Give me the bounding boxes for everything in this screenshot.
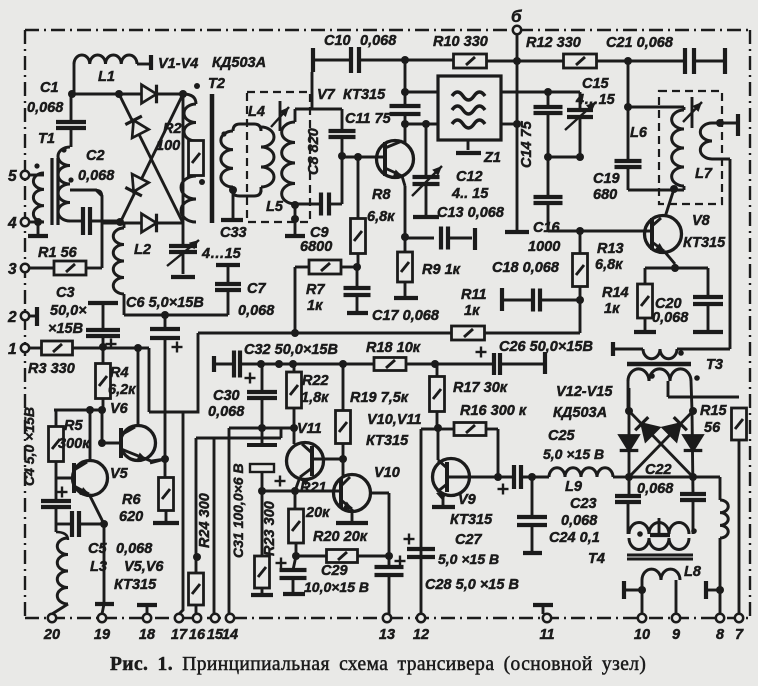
svg-text:L8: L8 (684, 564, 702, 580)
svg-text:0,068: 0,068 (360, 33, 397, 49)
svg-text:R22: R22 (302, 373, 329, 389)
svg-text:R7: R7 (306, 282, 325, 298)
svg-text:КД503А: КД503А (212, 55, 266, 71)
svg-text:C30: C30 (213, 388, 240, 404)
svg-text:C13 0,068: C13 0,068 (437, 205, 505, 221)
svg-text:C27: C27 (455, 532, 483, 548)
svg-text:C18 0,068: C18 0,068 (492, 260, 560, 276)
svg-text:1к: 1к (307, 298, 323, 314)
svg-text:R15: R15 (700, 403, 728, 419)
svg-text:0,068: 0,068 (27, 100, 64, 116)
svg-text:C31 100,0×6 В: C31 100,0×6 В (230, 463, 246, 558)
svg-text:1: 1 (8, 341, 17, 358)
svg-text:V5: V5 (110, 466, 129, 482)
svg-text:3: 3 (8, 261, 17, 278)
svg-text:19: 19 (94, 627, 110, 643)
svg-text:C19: C19 (593, 171, 620, 187)
svg-text:R23 300: R23 300 (262, 501, 278, 556)
svg-text:б: б (511, 7, 522, 26)
svg-text:0,068: 0,068 (652, 310, 689, 326)
svg-text:4…15: 4…15 (201, 246, 242, 262)
svg-text:680: 680 (593, 187, 617, 203)
svg-text:C14 75: C14 75 (519, 120, 535, 168)
svg-text:T4: T4 (588, 551, 605, 567)
svg-text:C21 0,068: C21 0,068 (606, 35, 674, 51)
svg-text:КТ315: КТ315 (343, 87, 386, 103)
svg-text:C23: C23 (570, 496, 597, 512)
svg-text:8: 8 (716, 627, 725, 643)
svg-text:13: 13 (379, 627, 395, 643)
svg-text:C22: C22 (645, 462, 672, 478)
svg-text:L6: L6 (630, 125, 648, 141)
svg-text:C26 50,0×15В: C26 50,0×15В (499, 339, 593, 355)
svg-text:R24 300: R24 300 (197, 493, 213, 548)
svg-text:V10,V11: V10,V11 (367, 412, 422, 428)
svg-text:R11: R11 (461, 287, 487, 303)
svg-text:T1: T1 (38, 131, 55, 147)
svg-text:V9: V9 (458, 492, 476, 508)
svg-text:14: 14 (222, 627, 238, 643)
svg-text:6,2к: 6,2к (108, 382, 136, 398)
svg-text:КТ315: КТ315 (114, 577, 157, 593)
svg-text:C28 5,0 ×15 В: C28 5,0 ×15 В (425, 577, 519, 593)
svg-text:C10: C10 (324, 33, 351, 49)
svg-text:T3: T3 (706, 357, 723, 373)
svg-text:V12-V15: V12-V15 (556, 384, 613, 400)
svg-text:C2: C2 (86, 148, 105, 164)
svg-text:C32 50,0×15В: C32 50,0×15В (244, 342, 338, 358)
svg-text:1,8к: 1,8к (301, 390, 329, 406)
svg-text:Рис. 1. Принципиальная схема: Рис. 1. Принципиальная схема трансивера … (110, 654, 646, 675)
svg-text:R8: R8 (372, 187, 391, 203)
svg-text:C24 0,1: C24 0,1 (549, 530, 600, 546)
svg-text:C15: C15 (582, 76, 610, 92)
svg-text:C7: C7 (247, 281, 266, 297)
svg-text:L2: L2 (134, 242, 151, 258)
svg-text:1000: 1000 (528, 239, 560, 255)
svg-text:×15В: ×15В (48, 321, 83, 337)
svg-text:5,0 ×15 В: 5,0 ×15 В (543, 446, 604, 462)
svg-text:R19 7,5к: R19 7,5к (350, 390, 409, 406)
svg-text:10,0×15 В: 10,0×15 В (304, 579, 369, 595)
svg-text:2: 2 (7, 309, 17, 326)
svg-text:50,0×: 50,0× (50, 303, 87, 319)
svg-text:4.. 15: 4.. 15 (451, 186, 489, 202)
svg-text:L5: L5 (266, 199, 284, 215)
svg-text:16: 16 (189, 627, 206, 643)
svg-text:20к: 20к (305, 505, 330, 521)
svg-text:КТ315: КТ315 (366, 433, 409, 449)
svg-text:C8 820: C8 820 (306, 128, 322, 175)
svg-text:V10: V10 (374, 465, 400, 481)
svg-text:V6: V6 (110, 401, 129, 417)
svg-text:5,0 ×15 В: 5,0 ×15 В (438, 551, 499, 567)
svg-text:0,068: 0,068 (78, 168, 115, 184)
svg-text:R5: R5 (64, 418, 83, 434)
svg-text:R9 1к: R9 1к (422, 262, 461, 278)
svg-text:4: 4 (7, 215, 17, 232)
svg-text:C1: C1 (40, 80, 59, 96)
svg-text:C25: C25 (548, 428, 576, 444)
svg-text:V1-V4: V1-V4 (158, 56, 198, 72)
svg-text:7: 7 (735, 627, 744, 643)
svg-text:L3: L3 (90, 559, 107, 575)
svg-text:1к: 1к (604, 301, 620, 317)
svg-text:R4: R4 (110, 365, 129, 381)
svg-text:L4: L4 (248, 104, 265, 120)
svg-text:6,8к: 6,8к (367, 209, 395, 225)
svg-text:R10 330: R10 330 (433, 34, 488, 50)
svg-text:5: 5 (8, 168, 17, 185)
svg-text:10: 10 (634, 627, 650, 643)
svg-text:R18 10к: R18 10к (366, 340, 421, 356)
svg-text:Z1: Z1 (483, 150, 501, 166)
svg-text:300к: 300к (58, 436, 90, 452)
svg-text:56: 56 (704, 420, 721, 436)
svg-text:C6 5,0×15В: C6 5,0×15В (126, 295, 204, 311)
svg-text:R17 30к: R17 30к (453, 380, 508, 396)
svg-text:R14: R14 (602, 285, 629, 301)
svg-text:R6: R6 (122, 492, 141, 508)
svg-text:0,068: 0,068 (561, 513, 598, 529)
svg-text:20: 20 (43, 627, 60, 643)
svg-text:C5: C5 (88, 541, 107, 557)
svg-text:C11 75: C11 75 (345, 111, 392, 127)
svg-text:L7: L7 (695, 166, 713, 182)
svg-text:V11: V11 (297, 421, 322, 437)
svg-text:0,068: 0,068 (637, 481, 674, 497)
svg-text:КД503А: КД503А (553, 405, 607, 421)
svg-text:17: 17 (171, 627, 188, 643)
svg-text:C4 5,0 ×15В: C4 5,0 ×15В (21, 407, 37, 486)
svg-text:9: 9 (672, 627, 680, 643)
svg-text:R12 330: R12 330 (526, 35, 581, 51)
svg-text:R20 20к: R20 20к (313, 529, 368, 545)
svg-text:C12: C12 (456, 169, 483, 185)
svg-text:R21: R21 (300, 480, 327, 496)
svg-text:6,8к: 6,8к (595, 257, 623, 273)
svg-text:C29: C29 (321, 563, 348, 579)
svg-text:0,068: 0,068 (238, 303, 275, 319)
svg-text:R2: R2 (163, 121, 182, 137)
svg-text:V8: V8 (692, 213, 711, 229)
svg-text:0,068: 0,068 (116, 541, 153, 557)
svg-text:C17 0,068: C17 0,068 (372, 308, 440, 324)
svg-text:18: 18 (139, 627, 156, 643)
svg-text:R13: R13 (597, 241, 624, 257)
svg-text:L9: L9 (565, 479, 582, 495)
svg-text:R1 56: R1 56 (38, 245, 78, 261)
svg-text:100: 100 (156, 138, 180, 154)
svg-text:620: 620 (119, 509, 143, 525)
svg-text:1к: 1к (464, 303, 480, 319)
svg-text:L1: L1 (98, 69, 115, 85)
svg-text:V7: V7 (317, 87, 336, 103)
svg-text:6800: 6800 (300, 239, 332, 255)
svg-text:C33: C33 (220, 225, 247, 241)
svg-text:КТ315: КТ315 (450, 512, 493, 528)
svg-text:0,068: 0,068 (208, 404, 245, 420)
svg-text:C3: C3 (56, 285, 75, 301)
svg-text:11: 11 (539, 627, 554, 643)
svg-text:КТ315: КТ315 (683, 235, 726, 251)
svg-text:R3 330: R3 330 (28, 361, 75, 377)
svg-text:12: 12 (413, 627, 429, 643)
svg-text:T2: T2 (208, 76, 225, 92)
svg-text:V5,V6: V5,V6 (124, 559, 164, 575)
svg-text:4…15: 4…15 (575, 92, 616, 108)
svg-text:C16: C16 (533, 220, 561, 236)
svg-text:R16 300 к: R16 300 к (460, 403, 527, 419)
